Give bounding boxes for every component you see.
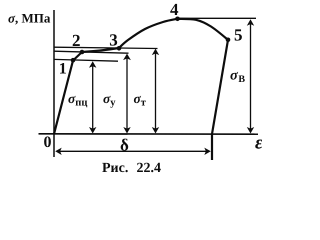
- svg-text:σ, МПа: σ, МПа: [8, 11, 51, 26]
- svg-text:σпц: σпц: [68, 91, 87, 109]
- svg-text:σВ: σВ: [230, 68, 245, 86]
- svg-text:5: 5: [234, 25, 243, 44]
- sigma_t level line: [54, 47, 158, 48]
- svg-text:σт: σт: [134, 91, 147, 109]
- stress-strain curve 0-1-2-3-4-5 with fracture drop: [54, 19, 228, 160]
- point 3 dot: [117, 46, 122, 51]
- svg-text:Рис.: Рис.: [102, 161, 128, 176]
- svg-text:3: 3: [109, 31, 118, 50]
- svg-text:4: 4: [170, 0, 179, 19]
- point 1 dot: [71, 58, 76, 63]
- y-axis (sigma axis): [53, 10, 55, 157]
- x-axis (epsilon axis): [39, 133, 259, 135]
- sigma_y measuring double arrow: [123, 54, 131, 134]
- sigma_B measuring double arrow: [247, 19, 254, 133]
- svg-text:δ: δ: [120, 136, 129, 155]
- svg-text:2: 2: [72, 31, 81, 50]
- point 4 dot: [175, 17, 180, 22]
- delta measuring double arrow: [55, 148, 211, 155]
- point 5 dot: [226, 38, 231, 43]
- svg-text:ε: ε: [255, 133, 262, 154]
- point 2 dot: [80, 50, 85, 55]
- sigma_t measuring double arrow: [152, 49, 159, 134]
- svg-text:σу: σу: [103, 91, 116, 109]
- sigma_B top level line: [178, 17, 256, 19]
- svg-text:22.4: 22.4: [137, 161, 162, 176]
- stress-strain diagram figure (Ris. 22.4): [0, 0, 262, 177]
- svg-text:1: 1: [59, 61, 67, 78]
- svg-text:0: 0: [44, 134, 52, 151]
- sigma_y level line: [54, 51, 129, 53]
- sigma_pc measuring double arrow: [89, 61, 96, 133]
- sigma_pc level line: [54, 59, 118, 61]
